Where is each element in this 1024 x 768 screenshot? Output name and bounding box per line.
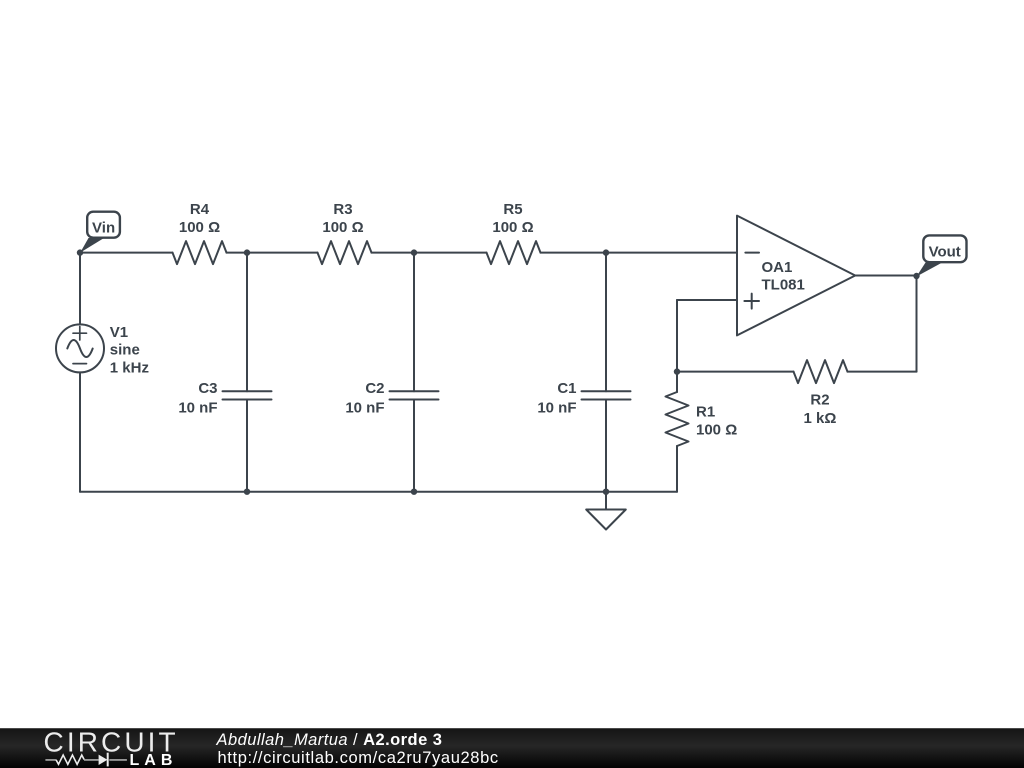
resistor R1: [666, 392, 689, 446]
junction: R1 top node: [674, 368, 680, 374]
V1 name label: [110, 324, 128, 341]
svg-text:LAB: LAB: [130, 752, 178, 768]
CircuitLab logo resistor-diode glyph: [45, 753, 127, 767]
junction: Vout node: [913, 273, 919, 279]
svg-text:Vout: Vout: [929, 244, 961, 261]
svg-text:100 Ω: 100 Ω: [696, 421, 737, 438]
C3 value label: [178, 399, 217, 416]
wire: C2 top lead: [413, 253, 415, 392]
wire: R5 to op-amp inverting input: [541, 252, 738, 254]
svg-text:Vin: Vin: [92, 220, 115, 237]
C2 name label: [365, 380, 384, 397]
svg-text:10 nF: 10 nF: [537, 399, 576, 416]
svg-text:1 kHz: 1 kHz: [110, 359, 149, 376]
svg-text:10 nF: 10 nF: [345, 399, 384, 416]
junction: R5/C1 node: [603, 249, 609, 255]
R4 value label: [179, 219, 220, 236]
wire: C1 bottom lead: [605, 400, 607, 492]
junction: C1/ground bottom: [603, 489, 609, 495]
capacitor C3: [223, 391, 272, 399]
capacitor C1: [582, 391, 631, 399]
svg-text:100 Ω: 100 Ω: [322, 219, 363, 236]
wire: R1 bottom lead: [676, 446, 678, 492]
R4 name label: [190, 201, 210, 218]
wire: Vout node down to feedback: [916, 276, 918, 372]
wire: C3 bottom lead: [246, 400, 248, 492]
svg-text:1 kΩ: 1 kΩ: [804, 410, 837, 427]
junction: Vin node: [77, 249, 83, 255]
resistor R2: [794, 360, 848, 383]
resistor R5: [487, 241, 541, 264]
svg-text:Abdullah_Martua / A2.orde 3: Abdullah_Martua / A2.orde 3: [216, 731, 443, 749]
R2 value label: [804, 410, 837, 427]
C3 name label: [198, 380, 217, 397]
wire: bottom ground rail: [80, 491, 677, 493]
R3 value label: [322, 219, 363, 236]
capacitor C2: [390, 391, 439, 399]
wire: C1 top lead: [605, 253, 607, 392]
wire: C2 bottom lead: [413, 400, 415, 492]
svg-text:C1: C1: [557, 380, 576, 397]
svg-text:sine: sine: [110, 342, 140, 359]
wire: op-amp output to Vout node: [855, 275, 916, 277]
ground: [586, 510, 626, 530]
R5 value label: [492, 219, 533, 236]
svg-text:R3: R3: [333, 201, 352, 218]
footer bar: [0, 728, 1024, 768]
svg-text:10 nF: 10 nF: [178, 399, 217, 416]
wire: down to R1 top node: [676, 300, 678, 372]
svg-text:R1: R1: [696, 403, 715, 420]
V1 value label: [110, 359, 149, 376]
resistor R3: [318, 241, 372, 264]
R2 name label: [810, 392, 829, 409]
wire: R3 to R5 through node: [372, 252, 487, 254]
svg-text:100 Ω: 100 Ω: [492, 219, 533, 236]
OA1 part label: [762, 277, 805, 294]
resistor R4: [173, 241, 227, 264]
C1 value label: [537, 399, 576, 416]
node Vout flag: [917, 235, 967, 276]
voltage source V1: [56, 324, 104, 372]
svg-text:R2: R2: [810, 392, 829, 409]
wire: R2 to R1 top node: [677, 371, 794, 373]
svg-text:OA1: OA1: [762, 259, 793, 276]
OA1 name label: [762, 259, 793, 276]
C2 value label: [345, 399, 384, 416]
junction: R3/C2 node: [411, 249, 417, 255]
CircuitLab logo wordmark LAB: [130, 752, 178, 768]
footer url text: [218, 749, 499, 767]
R5 name label: [503, 201, 522, 218]
svg-text:C3: C3: [198, 380, 217, 397]
wire: non-inverting input to left: [677, 299, 737, 301]
wire: R4 to R3 through node: [227, 252, 318, 254]
wire: V1 top lead: [79, 253, 81, 325]
wire: V1 bottom lead: [79, 372, 81, 491]
wire: Vin node to R4: [80, 252, 173, 254]
junction: C2 bottom: [411, 489, 417, 495]
R3 name label: [333, 201, 352, 218]
junction: R4/C3 node: [244, 249, 250, 255]
R1 value label: [696, 421, 737, 438]
node Vin flag: [80, 212, 120, 253]
C1 name label: [557, 380, 576, 397]
svg-text:R4: R4: [190, 201, 210, 218]
R1 name label: [696, 403, 715, 420]
svg-text:C2: C2: [365, 380, 384, 397]
svg-text:100 Ω: 100 Ω: [179, 219, 220, 236]
svg-text:R5: R5: [503, 201, 522, 218]
wire: C3 top lead: [246, 253, 248, 392]
wire: ground stub: [605, 492, 607, 510]
svg-text:V1: V1: [110, 324, 128, 341]
V1 type label: [110, 342, 140, 359]
footer title text: [216, 731, 443, 749]
wire: R1 top lead: [676, 372, 678, 392]
op-amp OA1: [737, 216, 855, 336]
CircuitLab logo wordmark CIRCUIT: [44, 727, 179, 758]
svg-text:http://circuitlab.com/ca2ru7ya: http://circuitlab.com/ca2ru7yau28bc: [218, 749, 499, 767]
svg-text:TL081: TL081: [762, 277, 805, 294]
junction: C3 bottom: [244, 489, 250, 495]
wire: feedback right segment to R2: [848, 371, 917, 373]
